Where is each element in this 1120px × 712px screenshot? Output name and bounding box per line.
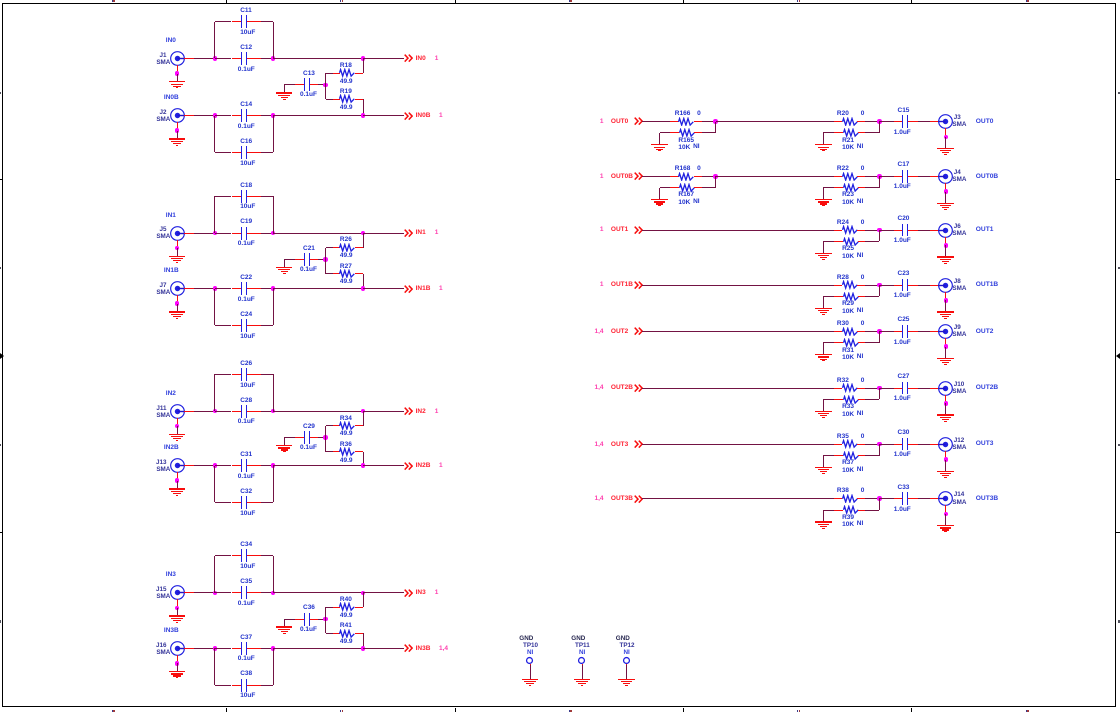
- wire R34 up to line: [363, 411, 365, 426]
- junction loop-right on IN2B line: [271, 463, 276, 468]
- wire port to R35: [642, 444, 834, 446]
- capacitor C18 pin 2: [247, 196, 260, 198]
- resistor R34 49.9: [338, 421, 356, 431]
- J11 pin 1 (signal): [184, 411, 194, 413]
- resistor R167 pin 2: [694, 187, 702, 189]
- junction below J4: [944, 189, 949, 194]
- capacitor C12 0.1uF: [241, 52, 242, 65]
- wire port to R38: [642, 498, 834, 500]
- test point TP12 (GND): [616, 634, 630, 643]
- wire junction to C17: [879, 176, 894, 178]
- wire C12 to loop-right junction: [261, 58, 273, 60]
- J5 pin 1 (signal): [184, 233, 194, 235]
- capacitor C37 pin 1: [232, 648, 242, 650]
- wire C38 to loop-right: [261, 685, 273, 687]
- resistor R21 pin 2: [858, 132, 866, 134]
- wire loop-right to corner junction: [273, 288, 363, 290]
- wire R25 to junction: [865, 241, 879, 243]
- resistor R28 pin 2: [857, 285, 865, 287]
- resistor R40 49.9: [338, 602, 356, 612]
- wire loop-left to C24: [215, 325, 232, 327]
- capacitor C20 pin 1: [894, 230, 902, 232]
- wire R26 up to line: [363, 233, 365, 248]
- capacitor C27 1.0uF: [902, 382, 903, 395]
- SMA connector J3: [937, 113, 954, 130]
- SMA connector J14: [937, 490, 954, 507]
- resistor R18 pin 2: [355, 73, 364, 75]
- resistor R165 10K NI: [678, 128, 696, 138]
- net label OUT1: [976, 225, 994, 235]
- ground below J3: [945, 137, 947, 148]
- wire R35 to junction: [865, 444, 879, 446]
- junction below J2: [175, 128, 180, 133]
- junction at C21: [323, 257, 328, 262]
- off-page port IN1B: [404, 285, 413, 294]
- resistor R34 pin 2: [355, 425, 364, 427]
- resistor R168 pin 2: [694, 176, 702, 178]
- wire loop-left to C34: [215, 555, 232, 557]
- ground at C13: [284, 85, 286, 92]
- resistor R30 pin 1: [834, 331, 842, 333]
- capacitor C20 1.0uF: [902, 224, 903, 237]
- bypass loop vertical right: [273, 22, 275, 59]
- wire loop-left to C37: [215, 648, 232, 650]
- wire to R27: [326, 273, 333, 275]
- resistor R19 49.9: [338, 94, 356, 104]
- ground at R21: [823, 132, 834, 134]
- wire to off-page port IN1: [363, 233, 404, 235]
- capacitor C18 pin 1: [232, 196, 242, 198]
- SMA connector J12 pin 1: [930, 444, 939, 446]
- resistor R168 0: [677, 172, 695, 182]
- ground at R31: [823, 342, 834, 344]
- SMA connector J9 pin 1: [930, 331, 939, 333]
- capacitor C25 1.0uF: [902, 325, 903, 338]
- capacitor C23 1.0uF: [902, 279, 903, 292]
- junction below J5: [175, 246, 180, 251]
- capacitor C35 pin 2: [247, 592, 260, 594]
- wire R168 junction to R22: [716, 176, 834, 178]
- junction loop-right on IN3B line: [271, 646, 276, 651]
- resistor R29 10K NI: [842, 292, 860, 302]
- junction R38/R39: [877, 496, 882, 501]
- net label OUT2B: [976, 383, 998, 393]
- bypass loop vertical right: [273, 556, 275, 593]
- capacitor C24 10uF: [241, 319, 242, 332]
- wire R38 to junction: [865, 498, 879, 500]
- resistor R33 pin 1: [834, 399, 843, 401]
- wire junction vertical to R34/R36: [325, 426, 327, 452]
- capacitor C38 pin 2: [247, 685, 260, 687]
- resistor R24 0: [841, 225, 859, 235]
- resistor R37 10K NI: [842, 451, 860, 461]
- junction below J11: [175, 424, 180, 429]
- resistor R26 pin 1: [333, 247, 340, 249]
- resistor R35 0: [841, 439, 859, 449]
- bypass loop vertical left: [214, 556, 216, 593]
- capacitor C34 10uF: [241, 549, 242, 562]
- SMA connector J13: [169, 457, 186, 474]
- net label IN2: [166, 389, 176, 398]
- capacitor C14 pin 1: [232, 115, 242, 117]
- wire to R26: [326, 247, 333, 249]
- net label IN2B: [164, 443, 179, 452]
- capacitor C22 pin 2: [247, 288, 260, 290]
- wire junction to C27: [879, 388, 894, 390]
- capacitor C17 1.0uF: [902, 170, 903, 183]
- junction resistor tap on IN2B line: [361, 463, 366, 468]
- ground below J12: [945, 460, 947, 471]
- resistor R39 pin 2: [858, 510, 866, 512]
- SMA connector J10 pin 1: [930, 388, 939, 390]
- wire loop-right to corner junction: [273, 58, 363, 60]
- resistor R39 pin 1: [834, 510, 843, 512]
- border zone tick bottom 4: [911, 708, 913, 712]
- wire R28 to junction: [865, 285, 879, 287]
- resistor R36 49.9: [338, 447, 356, 457]
- wire C18 to loop-right: [261, 196, 273, 198]
- capacitor C37 pin 2: [247, 648, 260, 650]
- wire to R19: [326, 99, 333, 101]
- J16 label: [0, 641, 167, 650]
- capacitor C15 pin 1: [894, 121, 902, 123]
- off-page port IN1: [404, 229, 413, 238]
- wire J13 to loop-left junction: [194, 465, 215, 467]
- resistor R165 pin 2: [694, 132, 702, 134]
- bypass loop vertical right: [273, 466, 275, 503]
- resistor R21 10K NI: [842, 128, 860, 138]
- wire TP11 to ground: [582, 665, 584, 679]
- wire C21 to junction: [318, 259, 326, 261]
- wire R22 to junction: [865, 176, 879, 178]
- capacitor C31 pin 1: [232, 465, 242, 467]
- capacitor C21 pin 2: [310, 259, 318, 261]
- capacitor C34 pin 2: [247, 555, 260, 557]
- capacitor C26 pin 1: [232, 374, 242, 376]
- resistor R166 0: [677, 117, 695, 127]
- capacitor C36 0.1uF: [304, 613, 305, 626]
- junction R20/R21: [877, 119, 882, 124]
- resistor R28 pin 1: [834, 285, 842, 287]
- wire J1 to loop-left junction: [194, 58, 215, 60]
- SMA J3 pin 2 (shield): [945, 128, 947, 137]
- ground at R33: [823, 399, 834, 401]
- border zone tick bottom 1: [226, 708, 228, 712]
- capacitor C16 pin 1: [232, 152, 242, 154]
- wire C19 to loop-right junction: [261, 233, 273, 235]
- wire C22 to loop-right junction: [261, 288, 273, 290]
- capacitor C38 10uF: [241, 679, 242, 692]
- capacitor C13 pin 1: [295, 84, 304, 86]
- junction below J12: [944, 457, 949, 462]
- resistor R26 49.9: [338, 243, 356, 253]
- ground below J15: [177, 608, 179, 616]
- zone number mark top 4: [797, 0, 798, 2]
- wire loop-left to C38: [215, 685, 232, 687]
- capacitor C26 pin 2: [247, 374, 260, 376]
- capacitor C22 pin 1: [232, 288, 242, 290]
- junction R32/R33: [877, 386, 882, 391]
- off-page port OUT1B: [404, 280, 604, 289]
- junction at C13: [323, 83, 328, 88]
- wire loop-left to C19: [215, 233, 232, 235]
- wire C27 to J10: [918, 388, 930, 390]
- ground at R29: [823, 296, 834, 298]
- off-page port IN3: [404, 589, 413, 598]
- capacitor C22 0.1uF: [241, 282, 242, 295]
- capacitor C12 pin 1: [232, 58, 242, 60]
- zone number mark top 1: [112, 0, 113, 2]
- wire J11 to loop-left junction: [194, 411, 215, 413]
- wire to off-page port IN2B: [363, 465, 404, 467]
- SMA connector J7: [169, 280, 186, 297]
- wire loop-right to corner junction: [273, 411, 363, 413]
- ground below J6: [945, 245, 947, 256]
- ground at C29: [284, 438, 286, 445]
- capacitor C19 pin 2: [247, 233, 260, 235]
- capacitor C30 1.0uF: [902, 438, 903, 451]
- SMA connector J2: [169, 107, 186, 124]
- net label OUT2: [976, 327, 994, 337]
- resistor R31 pin 2: [858, 342, 866, 344]
- capacitor C17 pin 1: [894, 176, 902, 178]
- wire R41 down to line: [363, 633, 365, 648]
- wire C32 to loop-right: [261, 502, 273, 504]
- capacitor C23 pin 1: [894, 285, 902, 287]
- resistor R37 pin 1: [834, 455, 843, 457]
- wire C36 to junction: [318, 619, 326, 621]
- J15 pin 1 (signal): [184, 592, 194, 594]
- wire C26 to loop-right: [261, 374, 273, 376]
- junction loop-left on IN1B line: [213, 286, 218, 291]
- wire TP12 to ground: [626, 665, 628, 679]
- border zone divider right lower: [1116, 532, 1120, 533]
- net label IN3: [166, 570, 176, 579]
- resistor R32 pin 1: [834, 388, 842, 390]
- resistor R167 pin 1: [670, 187, 679, 189]
- wire C31 to loop-right junction: [261, 465, 273, 467]
- bypass loop vertical left: [214, 116, 216, 153]
- off-page port OUT0: [404, 117, 604, 126]
- wire junction to C23: [879, 285, 894, 287]
- resistor R19 pin 1: [333, 99, 340, 101]
- off-page port OUT3: [404, 440, 604, 449]
- wire port to R166: [642, 121, 670, 123]
- resistor R20 0: [841, 117, 859, 127]
- wire R27 down to line: [363, 274, 365, 289]
- capacitor C28 pin 2: [247, 411, 260, 413]
- net label OUT3B: [976, 494, 998, 504]
- resistor R25 pin 2: [858, 241, 866, 243]
- TP12 pin: [626, 664, 628, 666]
- J1 pin 1 (signal): [184, 58, 194, 60]
- bypass loop vertical left: [214, 648, 216, 685]
- SMA connector J4: [937, 168, 954, 185]
- resistor R40 pin 2: [355, 607, 364, 609]
- resistor R36 pin 2: [355, 451, 364, 453]
- capacitor C33 1.0uF: [902, 492, 903, 505]
- resistor R23 pin 2: [858, 187, 866, 189]
- junction below J10: [944, 401, 949, 406]
- ground at R165: [660, 132, 671, 134]
- wire loop-left to C35: [215, 592, 232, 594]
- capacitor C34 pin 1: [232, 555, 242, 557]
- resistor R24 pin 2: [857, 230, 865, 232]
- wire loop-right to corner junction: [273, 592, 363, 594]
- junction below J7: [175, 301, 180, 306]
- SMA connector J8: [937, 277, 954, 294]
- wire C11 to loop-right: [261, 21, 273, 23]
- wire to R40: [326, 607, 333, 609]
- net label IN0: [166, 36, 176, 45]
- wire port to R28: [642, 285, 834, 287]
- ground below J9: [945, 347, 947, 358]
- wire port to R30: [642, 331, 834, 333]
- wire R31 to junction: [865, 342, 879, 344]
- border zone tick left: [0, 353, 4, 359]
- wire C29 to junction: [318, 437, 326, 439]
- resistor R166 pin 2: [694, 121, 702, 123]
- capacitor C32 10uF: [241, 496, 242, 509]
- capacitor C14 0.1uF: [241, 109, 242, 122]
- junction loop-right on IN3 line: [271, 591, 276, 596]
- resistor R39 10K NI: [842, 505, 860, 515]
- resistor R27 pin 2: [355, 273, 364, 275]
- ground below TP10: [522, 679, 539, 680]
- wire loop-left to C31: [215, 465, 232, 467]
- junction loop-left on IN0 line: [213, 56, 218, 61]
- junction below J13: [175, 478, 180, 483]
- wire TP10 to ground: [530, 665, 532, 679]
- resistor R28 0: [841, 280, 859, 290]
- ground below J10: [945, 403, 947, 414]
- border zone divider left upper: [0, 179, 2, 180]
- junction R166/R165: [713, 119, 718, 124]
- wire loop-right to corner junction: [273, 648, 363, 650]
- net label OUT0: [976, 117, 994, 127]
- border zone tick top 2: [455, 0, 457, 3]
- SMA connector J6 pin 1: [930, 230, 939, 232]
- SMA connector J3 pin 1: [930, 121, 939, 123]
- wire R167 to junction: [702, 187, 716, 189]
- ground at R167: [660, 187, 671, 189]
- wire R21 to junction: [865, 132, 879, 134]
- SMA J4 pin 2 (shield): [945, 183, 947, 192]
- resistor R26 pin 2: [355, 247, 364, 249]
- border zone tick bottom 2: [455, 708, 457, 712]
- J16 pin 2 (shield): [177, 655, 179, 663]
- capacitor C30 pin 2: [908, 444, 917, 446]
- SMA J8 pin 2 (shield): [945, 292, 947, 301]
- J15 label: [0, 585, 167, 594]
- ground below J13: [177, 481, 179, 489]
- J7 pin 2 (shield): [177, 295, 179, 303]
- net label IN1B: [164, 266, 179, 275]
- wire C13 to junction: [318, 84, 326, 86]
- resistor R36 pin 1: [333, 451, 340, 453]
- junction loop-right on IN1B line: [271, 286, 276, 291]
- off-page port IN0B: [404, 112, 413, 121]
- wire junction to C33: [879, 498, 894, 500]
- capacitor C19 0.1uF: [241, 227, 242, 240]
- SMA connector J6: [937, 222, 954, 239]
- off-page port IN0: [404, 54, 413, 63]
- junction below J15: [175, 606, 180, 611]
- capacitor C37 0.1uF: [241, 642, 242, 655]
- bypass loop vertical right: [273, 196, 275, 233]
- SMA connector J5: [169, 225, 186, 242]
- wire to R18: [326, 73, 333, 75]
- capacitor C25 pin 2: [908, 331, 917, 333]
- border zone tick top 3: [683, 0, 685, 3]
- J2 pin 2 (shield): [177, 122, 179, 130]
- resistor R27 pin 1: [333, 273, 340, 275]
- junction below J3: [944, 135, 949, 140]
- border zone divider right upper: [1116, 179, 1120, 180]
- capacitor C18 10uF: [241, 190, 242, 203]
- ground below J5: [177, 248, 179, 256]
- J11 pin 2 (shield): [177, 418, 179, 426]
- resistor R23 pin 1: [834, 187, 843, 189]
- resistor R41 pin 2: [355, 633, 364, 635]
- resistor R20 pin 1: [834, 121, 842, 123]
- capacitor C24 pin 2: [247, 325, 260, 327]
- capacitor C11 10uF: [241, 15, 242, 28]
- SMA connector J16: [169, 640, 186, 657]
- wire junction vertical to R26/R27: [325, 248, 327, 274]
- J13 pin 1 (signal): [184, 465, 194, 467]
- resistor R30 0: [841, 327, 859, 337]
- off-page port OUT0B: [404, 172, 604, 181]
- junction at C36: [323, 617, 328, 622]
- wire J2 to loop-left junction: [194, 115, 215, 117]
- capacitor C12 pin 2: [247, 58, 260, 60]
- wire R18 up to line: [363, 59, 365, 74]
- capacitor C28 pin 1: [232, 411, 242, 413]
- resistor R167 10K NI: [678, 183, 696, 193]
- SMA connector J11: [169, 403, 186, 420]
- wire loop-left to C32: [215, 502, 232, 504]
- junction below J9: [944, 344, 949, 349]
- junction R24/R25: [877, 228, 882, 233]
- wire J16 to loop-left junction: [194, 648, 215, 650]
- wire C30 to J12: [918, 444, 930, 446]
- resistor R38 pin 2: [857, 498, 865, 500]
- capacitor C33 pin 2: [908, 498, 917, 500]
- resistor R20 pin 2: [857, 121, 865, 123]
- J13 pin 2 (shield): [177, 472, 179, 480]
- J13 label: [0, 458, 167, 467]
- net label IN1: [166, 211, 176, 220]
- wire R37 to junction: [865, 455, 879, 457]
- capacitor C21 0.1uF: [304, 253, 305, 266]
- bypass loop vertical right: [273, 648, 275, 685]
- SMA connector J10: [937, 380, 954, 397]
- test point TP10 (GND): [519, 634, 533, 643]
- bypass loop vertical left: [214, 466, 216, 503]
- SMA connector J8 pin 1: [930, 285, 939, 287]
- wire loop-right to corner junction: [273, 233, 363, 235]
- capacitor C19 pin 1: [232, 233, 242, 235]
- junction loop-right on IN0B line: [271, 113, 276, 118]
- J2 pin 1 (signal): [184, 115, 194, 117]
- zone letter mark left y266.5: [0, 267, 1, 270]
- wire R40 up to line: [363, 593, 365, 608]
- junction at C29: [323, 435, 328, 440]
- resistor R29 pin 1: [834, 296, 843, 298]
- net label IN3B: [164, 626, 179, 635]
- J11 label: [0, 404, 167, 413]
